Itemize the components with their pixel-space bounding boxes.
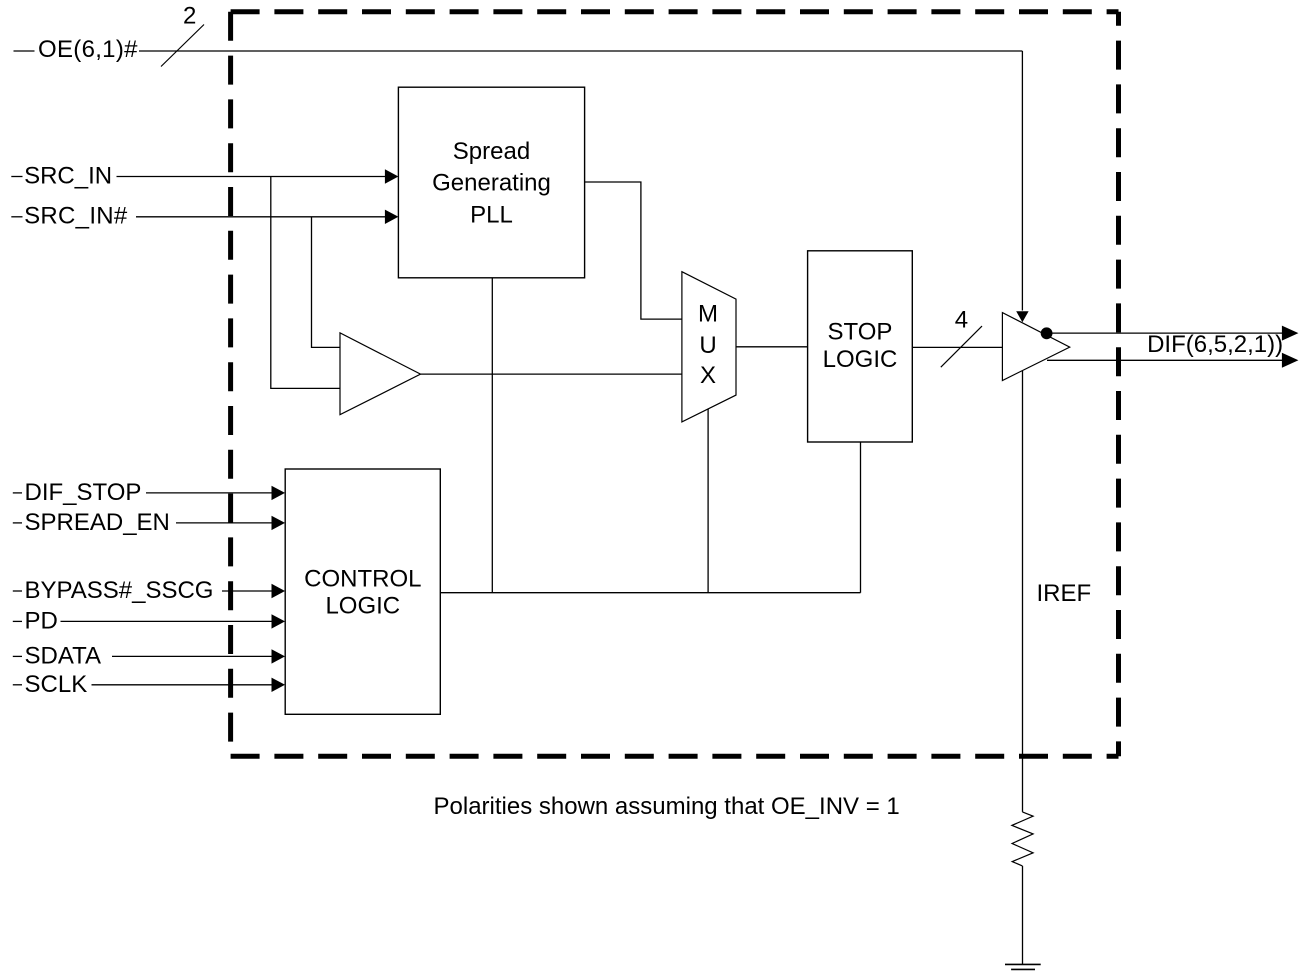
bus slash on OE line bbox=[161, 25, 204, 67]
arrow DIF output top bbox=[1282, 326, 1299, 341]
arrow SDATA into CONTROL LOGIC bbox=[272, 649, 286, 663]
svg-text:X: X bbox=[700, 362, 716, 389]
wire OE(6,1)# vertical to output buffer bbox=[1021, 51, 1023, 311]
svg-text:2: 2 bbox=[183, 3, 196, 30]
net label OE(6,1)# bbox=[14, 36, 139, 63]
wire SRC_IN bbox=[117, 176, 387, 178]
arrow SPREAD_EN into CONTROL LOGIC bbox=[272, 516, 286, 530]
wire MUX select from control line bbox=[707, 409, 709, 593]
net label PD bbox=[13, 608, 58, 635]
arrow DIF output bottom bbox=[1282, 353, 1299, 368]
net label SPREAD_EN bbox=[13, 509, 170, 536]
arrow SRC_IN into PLL bbox=[385, 169, 399, 183]
svg-text:IREF: IREF bbox=[1037, 580, 1092, 607]
arrow SCLK into CONTROL LOGIC bbox=[272, 678, 286, 692]
net label BYPASS#_SSCG bbox=[13, 577, 214, 604]
arrow into output buffer enable bbox=[1016, 311, 1028, 322]
wire SRC_IN branch to input buffer bbox=[271, 177, 340, 389]
svg-text:OE(6,1)#: OE(6,1)# bbox=[38, 36, 138, 63]
wire SDATA bbox=[112, 655, 273, 657]
svg-text:Spread: Spread bbox=[453, 138, 530, 165]
wire OE(6,1)# horizontal bbox=[139, 50, 1022, 52]
wire SCLK bbox=[92, 684, 273, 686]
mux MUX bbox=[682, 272, 736, 422]
arrow SRC_IN# into PLL bbox=[385, 210, 399, 224]
wire SRC_IN# branch to input buffer bbox=[312, 217, 341, 348]
wire IREF vertical bbox=[1022, 371, 1024, 812]
wire SRC_IN# bbox=[136, 216, 386, 218]
arrow PD into CONTROL LOGIC bbox=[272, 614, 286, 628]
resistor IREF bbox=[1012, 812, 1033, 866]
bus slash on STOP output bbox=[941, 326, 982, 367]
block Spread Generating PLL bbox=[398, 87, 584, 278]
svg-text:LOGIC: LOGIC bbox=[325, 593, 400, 620]
wire STOP LOGIC output to output buffer bbox=[912, 346, 1002, 348]
wire PLL bottom to control line bbox=[491, 278, 493, 593]
wire BYPASS#_SSCG bbox=[222, 590, 273, 592]
wire DIF output top bbox=[1052, 332, 1283, 334]
wire resistor to ground bbox=[1022, 866, 1024, 965]
svg-text:STOP: STOP bbox=[828, 318, 893, 345]
block STOP LOGIC bbox=[808, 251, 913, 442]
svg-text:LOGIC: LOGIC bbox=[823, 346, 898, 373]
svg-text:PLL: PLL bbox=[470, 202, 513, 229]
wire control line to STOP LOGIC and MUX bbox=[440, 592, 860, 594]
svg-text:Generating: Generating bbox=[432, 170, 551, 197]
block CONTROL LOGIC bbox=[285, 469, 440, 714]
svg-text:SDATA: SDATA bbox=[25, 643, 101, 670]
svg-text:SPREAD_EN: SPREAD_EN bbox=[25, 509, 170, 536]
wire PLL output to MUX top input bbox=[585, 182, 682, 319]
svg-text:PD: PD bbox=[25, 608, 58, 635]
arrow BYPASS#_SSCG into CONTROL LOGIC bbox=[272, 584, 286, 598]
net label SRC_IN# bbox=[11, 203, 128, 230]
svg-text:Polarities shown assuming that: Polarities shown assuming that OE_INV = … bbox=[434, 793, 900, 820]
chip boundary dashed box bbox=[231, 12, 1119, 756]
net label SDATA bbox=[13, 643, 101, 670]
svg-text:4: 4 bbox=[955, 307, 968, 334]
svg-text:SRC_IN: SRC_IN bbox=[24, 162, 112, 189]
wire MUX output to STOP LOGIC bbox=[736, 346, 808, 348]
output buffer triangle bbox=[1002, 313, 1069, 381]
wire PD bbox=[61, 620, 273, 622]
arrow DIF_STOP into CONTROL LOGIC bbox=[272, 486, 286, 500]
inversion dot on output buffer bbox=[1041, 327, 1053, 339]
svg-text:DIF_STOP: DIF_STOP bbox=[25, 479, 142, 506]
wire STOP LOGIC bottom to control line bbox=[860, 442, 862, 593]
wire DIF_STOP bbox=[146, 492, 273, 494]
net label SCLK bbox=[13, 671, 87, 698]
net label DIF_STOP bbox=[13, 479, 142, 506]
svg-text:U: U bbox=[699, 332, 716, 359]
svg-text:CONTROL: CONTROL bbox=[304, 566, 421, 593]
input buffer triangle bbox=[340, 333, 421, 415]
svg-text:BYPASS#_SSCG: BYPASS#_SSCG bbox=[25, 577, 214, 604]
ground bbox=[1005, 964, 1041, 969]
wire DIF output bottom bbox=[1047, 359, 1283, 361]
svg-text:M: M bbox=[698, 300, 718, 327]
net label SRC_IN bbox=[11, 162, 112, 189]
wire SPREAD_EN bbox=[176, 522, 273, 524]
svg-text:DIF(6,5,2,1)): DIF(6,5,2,1)) bbox=[1147, 331, 1283, 358]
wire input buffer output to MUX bbox=[421, 373, 682, 375]
svg-text:SRC_IN#: SRC_IN# bbox=[24, 203, 128, 230]
svg-text:SCLK: SCLK bbox=[25, 671, 88, 698]
